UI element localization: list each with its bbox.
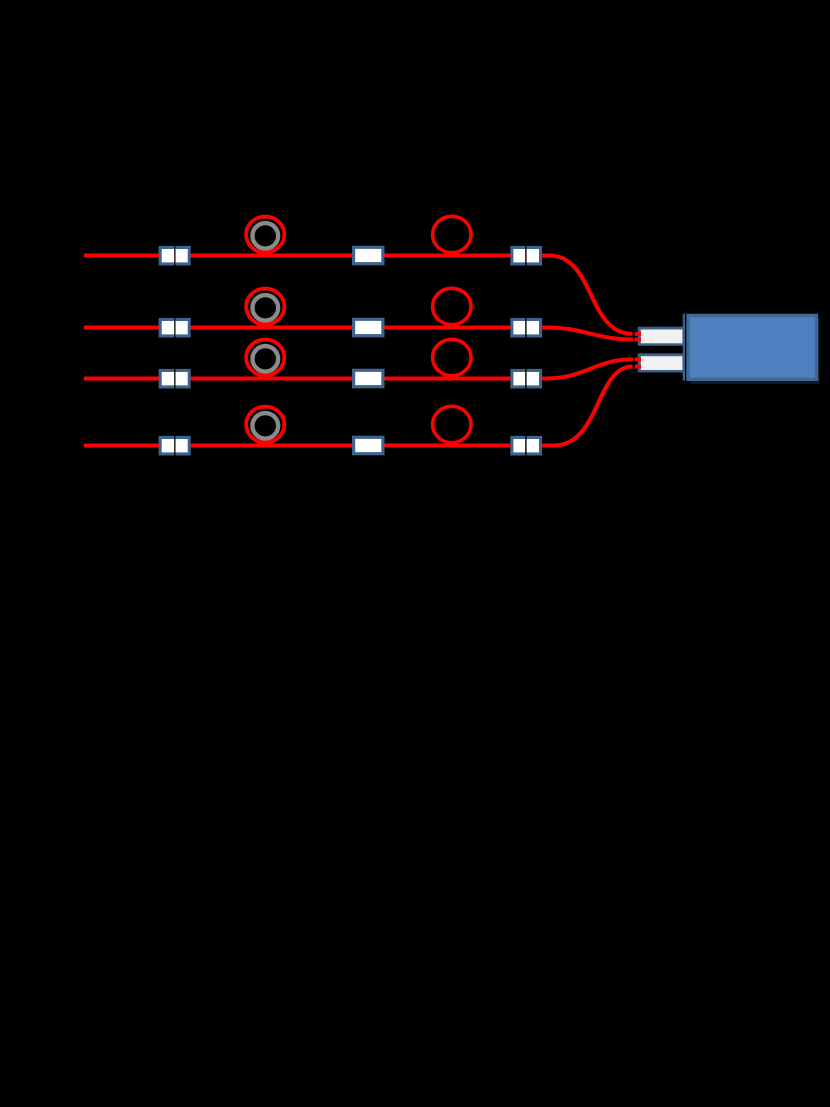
fiber coil with gray spool row 3 [246,340,284,376]
connector pair row 4 left [159,436,191,456]
fiber coil with gray spool row 4 [246,407,284,443]
faceplate bar of receiver [683,314,685,381]
fiber loop row 2 [433,288,471,324]
fiber loop row 1 [433,216,471,252]
component box row 4 [352,436,385,456]
wire stub into port 1 (fiber 1) [635,332,641,336]
connector pair row 4 right [510,436,542,456]
fiber coil with gray spool row 2 [246,289,284,325]
fiber loop row 4 [433,406,471,442]
input port 1 [638,327,684,346]
component box row 2 [352,318,385,338]
wire stub into port 2 (fiber 4) [635,365,641,369]
receiver box shadow [691,319,820,385]
wire fiber 3 [84,359,633,378]
connector pair row 1 right [510,246,542,266]
wire fiber 2 [84,328,633,340]
component box row 3 [352,369,385,389]
input port 2 [638,353,684,372]
connector pair row 2 right [510,318,542,338]
fiber loop row 3 [433,339,471,375]
wire stub into port 2 (fiber 3) [635,357,641,361]
fiber coil with gray spool row 1 [246,217,284,253]
connector pair row 3 right [510,369,542,389]
component box row 1 [352,246,385,266]
connector pair row 1 left [159,246,191,266]
connector pair row 2 left [159,318,191,338]
receiver box [688,315,817,379]
wire fiber 4 [84,367,633,446]
connector pair row 3 left [159,369,191,389]
wire stub into port 1 (fiber 2) [635,338,641,342]
wire fiber 1 [84,256,633,334]
